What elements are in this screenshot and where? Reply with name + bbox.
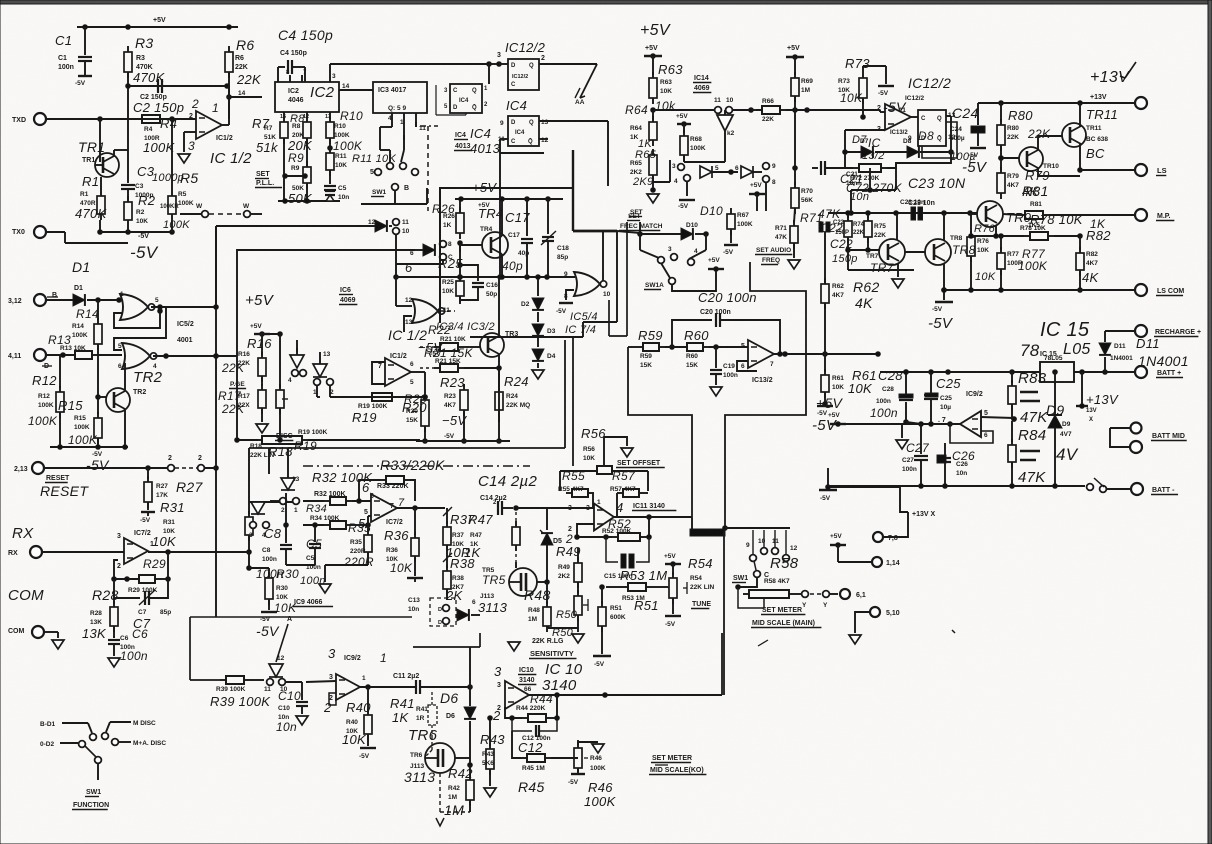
resistor R51 [600,585,605,604]
capacitor C28 [870,368,921,424]
ground c10 [296,716,308,725]
ic9 block box top [190,616,303,618]
resistor R5 [168,119,176,220]
wire R73 bottom [861,98,866,119]
terminal +13V [1135,97,1147,109]
capacitor C27 [902,424,930,486]
label R33 220K [377,457,445,490]
op-amp IC10 [492,681,529,723]
capacitor C20 [672,290,780,354]
resistor R56 box [560,437,648,474]
transistor TR1 [95,119,119,177]
wire vert226 c1 [0,0,1,1]
wire r58 right [795,591,838,598]
wire C2 feedback [126,84,230,89]
resistor R43 box [484,743,496,797]
transistor TR5 [478,567,537,615]
op-amp IC7/2b [358,480,405,531]
label R1 [75,174,108,221]
switch batt [1087,478,1130,492]
resistor R72 [853,164,887,172]
diode D7 [845,134,873,158]
resistor R60 [665,328,748,369]
block box B outline [628,347,692,518]
wire to R66 [751,109,762,111]
wire R68 bottom [684,131,725,162]
zener D9 [1046,382,1079,486]
op-amp IC11 [565,499,624,546]
resistor R83 [1008,370,1048,426]
resistor R49 box [574,557,582,593]
resistor R62 box [821,278,880,354]
ground rlg [508,642,520,651]
resistor R68 [680,130,706,161]
resistor R47 [464,512,520,562]
capacitor C3 [121,92,135,200]
wire osc line [653,97,753,113]
resistor R63 [649,62,683,113]
wire ic9b loop [948,422,993,443]
resistor R39 [210,676,271,709]
wire top link to IC12/2 [330,62,508,67]
wire nor cross link [114,307,166,350]
resistor R81 [1019,183,1135,229]
label IC5 4001 [177,321,194,344]
wire r83 [1011,372,1013,383]
switch meter contacts [746,538,798,561]
arrow bottom d2 [436,818,444,826]
ground D4 [532,363,544,379]
ic IC12/2 first half box [508,59,539,90]
resistor R53 [606,568,668,602]
resistor R8 [290,112,311,167]
resistor R51 box [598,598,659,654]
resistor R10 [325,109,363,153]
wire d10 branches [640,234,706,259]
wire dash link ic3 [420,126,438,211]
wire dashdot row [303,465,530,467]
resistor R56 [581,426,606,462]
block pll bottom edges [249,337,573,466]
wire TR11 emitter [1079,103,1081,126]
box bottom d2 [413,633,480,647]
switch sw1c arm [754,561,769,579]
ic IC3 box [373,82,427,113]
ground c5 arrow [319,584,331,593]
wire box bottom b2 [470,336,520,338]
resistor R25 [459,243,461,252]
wire nor3 out dashed [440,310,455,312]
diode D6 [440,687,476,765]
wire sw to 277 node [394,234,399,279]
capacitor C5a [324,185,349,201]
op-amp IC9/2a [323,674,366,715]
capacitor C1 [75,57,92,87]
wire disc row line [237,439,258,441]
resistor R79 [997,156,1050,199]
capacitor C23 [900,199,925,220]
wire vert237 mid [235,356,240,442]
wire opamp2 box [372,362,385,384]
wire nor1 in2 loop [114,309,162,328]
resistor R38 [443,556,475,603]
resistor R80 [997,103,1051,156]
wire row 250 [237,250,415,356]
wire 78 elbow [900,487,908,512]
resistor R58 [743,555,799,598]
wire +5V rail top-left [77,25,238,30]
wire c21 lower [851,163,896,213]
terminal RESET [14,462,168,474]
resistor R64 [630,110,657,150]
wire r33 loop [359,480,415,501]
pot R54 TUNE [664,553,681,628]
wire -5V tr2 rail [50,445,128,473]
resistor R61 [821,354,877,404]
resistor R62 [824,232,826,284]
terminal RX [8,525,124,558]
power -5V r51 [593,656,611,668]
wire sw stubs [753,530,786,554]
resistor R66 [756,98,786,123]
label R18 pot [250,443,293,459]
wire row 226 [216,225,378,227]
inverter k2 [717,110,735,137]
label +13V x [0,0,1,1]
thyristor 12 [276,616,292,662]
nor gate IC5c [564,271,611,300]
wire r53-pot [668,587,669,588]
resistor R34 [303,503,370,529]
wire osc to opamp [807,110,885,112]
wire d2 vert470 [469,647,471,687]
switch 2-1 c2 [270,498,299,514]
switch 3-4 c2 [249,522,269,539]
wire IC2-IC3 [330,64,373,90]
label SET FREQ MATCH [629,209,643,217]
resistor R35 [343,521,374,569]
wire IC4b pins [498,119,549,144]
label SET PLL [255,171,282,188]
wire r21 dashes [420,347,434,368]
label D1 handwritten [72,259,91,275]
wire row226 diode [368,219,387,232]
terminal HP [1135,209,1174,221]
switch fn arm [85,746,101,780]
label SW1 c3 [732,575,748,583]
switch SW1A arm [661,263,675,284]
capacitor C15 [604,537,649,580]
wire op-amp output [222,97,229,125]
wire ic9a out [360,685,415,690]
label D1 printed [74,285,83,292]
resistor R76 [967,213,996,290]
capacitor C6 plates [108,627,148,667]
scan border top [0,0,1212,4]
wire pge rail [255,332,282,388]
resistor R74 [844,211,865,253]
resistor R77 [999,234,1004,250]
resistor R84 [1008,421,1046,486]
resistor R82 [1076,217,1111,292]
wire R7R9 rail [278,195,340,203]
label set audio freq [755,243,800,269]
wire ic10 out [529,692,722,706]
switch slash r38 [443,553,452,562]
switch contacts 3-4 [672,163,690,196]
oscillator box top [440,150,573,323]
terminal 1-14 [872,557,900,567]
pot R18 wiper [276,384,284,414]
resistor R33 [380,476,410,484]
wire R65 to gnd [647,175,659,203]
resistor R55 [558,469,594,507]
label SET OFFSET [616,460,665,468]
resistor R43 [480,716,505,767]
wire tr8 emitter [942,264,947,292]
wire vert216 full [214,226,219,617]
thyristor triangle [313,351,331,377]
ic IC15 box [1040,355,1074,382]
capacitor C10 [276,682,308,734]
diode pair sw1a [700,165,753,178]
wire TR10 collector [1038,136,1062,150]
pot R50 [548,590,588,639]
label R8 [287,123,313,153]
op-amp IC9/2b [938,410,1016,437]
resistor R24 [495,368,530,443]
resistor R23 [440,375,468,443]
wire IC4 pins [436,85,488,115]
op-amp IC13/2b [741,340,774,384]
capacitor C26 [937,443,975,486]
wire -5V below [678,200,695,210]
label M DISC [102,720,156,739]
scan border right [1208,0,1212,844]
capacitor C4 [278,27,333,82]
wire TR10 emitter [1038,168,1080,176]
wire nor5c in8 [556,290,598,336]
resistor R57 [610,469,645,516]
switch 4-3 contacts [288,370,298,384]
terminal 3-12 [8,292,58,306]
resistor R71 [775,207,841,249]
label -5V txo [130,233,159,262]
wire R66 to opamp [786,108,809,113]
resistor R4 [136,115,174,123]
wire TR2 emitter [124,409,126,447]
label O-D2 [40,741,85,748]
oscillator box right thick [520,231,617,337]
wire IC2 top pins [286,70,307,82]
ground set offset [604,437,633,457]
capacitor C25 [924,372,961,424]
resistor R28 [82,587,119,641]
wire ic9b junction [816,395,960,426]
wire ic7 out [148,550,249,555]
wire tr9 collector [1003,214,1019,215]
label DISC [275,433,293,441]
wire R9 wiper [283,174,308,179]
label SET METER MAIN [751,607,821,628]
diode c13 [457,609,469,621]
label C3 [135,164,184,199]
power -5V tr8 [928,288,954,332]
op-amp IC13/2a [862,104,911,162]
label R5 [163,170,199,231]
label +13V X [912,511,935,518]
label SET FREQ MATCH2 [617,213,663,233]
ground tr7 [892,264,904,288]
wire r13 gate [98,354,122,356]
resistor R45 [512,731,578,795]
wire ic13b loop [737,361,757,371]
transistor TR8 [925,235,976,265]
op-amp IC1/2 [196,111,222,139]
wire nor2 out [153,354,237,359]
wire opamp13 out [899,107,918,117]
switch SW1 contacts [370,163,418,204]
wire batt- rail [828,484,1085,489]
switch disc contacts [300,370,307,377]
wire TR3 emitter [464,354,501,422]
pot R46 [568,740,617,809]
wire tr6 drain [455,758,472,767]
capacitor C6 [113,636,115,638]
resistor R75 [864,211,886,250]
wire b2 vert320 [317,385,320,397]
power +5V pge [245,292,275,336]
wire tr7 bottom row [848,250,914,270]
wire -5V emitters [98,220,175,234]
wire stem full [723,531,725,695]
diode D11 [1099,331,1189,372]
ground r36 [407,578,423,582]
wire gate path up [215,226,217,307]
wire r57 left [645,492,648,494]
resistor R73 [838,56,886,105]
diode D5 [540,508,562,545]
wire tr8 collector [943,213,945,240]
label RESET [40,475,89,499]
wire vert237 c1 [268,448,270,474]
resistor R2 [124,193,156,226]
wire d5 tr5 [537,545,549,584]
node TXD junction [98,117,103,122]
ground op-amp pin3 [178,132,196,163]
switch 11-10 d1 [264,679,302,693]
wire +5v osc rail [455,180,563,209]
label IC11 3140 [632,503,676,511]
wire row250 diode [405,241,453,275]
diode 13pin [290,348,304,368]
capacitor C18 trimmer [541,199,569,277]
power +13V rail [978,62,1136,105]
power -5V r23 [418,340,467,440]
wire c23 row [828,211,977,216]
capacitor C7 loop [114,579,168,605]
label IC14 4069 [693,75,711,93]
wire nor1 out [151,305,216,310]
node junction R6-IC2 [227,86,262,119]
wire ic9a loop [329,693,336,705]
wire C1 to rail [84,27,86,55]
wire T stem bottoms [690,518,727,536]
label IC4 handwritten [506,98,527,113]
resistor R52 [575,517,652,541]
wire r58 under loop [738,587,764,608]
arrow AA diagonal [575,64,597,106]
wire r19 to box [308,439,420,441]
terminal TXO [12,226,128,243]
wire sw1c down [736,578,757,589]
resistor R65 [630,149,657,188]
ic IC12/2 second box [905,75,956,146]
label pin3 IC12 [497,52,501,59]
wire c14 to ic11 [516,507,594,509]
label IC6 4069 [339,287,357,305]
resistor R6 [225,46,233,97]
label IC9/2 d2 [328,646,387,665]
transistor TR10 [1019,147,1059,171]
resistor R3 [124,46,132,92]
label M+A DISC [112,739,167,747]
resistor R67 [723,208,753,256]
wire IC12b right pin [946,116,951,152]
resistor R40 [342,687,372,747]
transistor TR6 [404,727,455,785]
wire opamp2b out [411,372,425,397]
resistor R26 [432,199,464,239]
wire tr7 base [848,248,879,253]
power +5V mid [749,182,765,211]
label C1 handwritten [55,33,72,48]
resistor R14 [72,300,102,397]
block box A left [609,222,627,336]
diode D4 [532,338,556,361]
label C2 [133,94,184,115]
wire tr7-tr8 link [905,251,925,253]
wire r20 bottom [416,440,510,442]
wire sw1a elbow [672,257,724,291]
wire IC12b loop [922,122,957,158]
nor gate IC3/2 [405,297,495,333]
resistor R15 [58,395,102,447]
power -5V r30 [256,612,280,639]
wire ic15 right [1074,370,1135,375]
label 22K RLG [529,638,577,659]
wire TR3 collector [498,277,500,336]
wire vert226 low [0,0,1,1]
wire 277 row [396,275,575,280]
ground com [52,640,64,649]
resistor R21a [428,323,466,351]
label IC9/2 [966,391,983,398]
label IC1/2 pins [188,97,252,167]
ground r46 top [578,742,604,753]
resistor R78 box [1020,225,1054,240]
capacitor C13 [408,597,456,626]
resistor R29 [125,552,171,594]
resistor R70 [793,110,798,185]
power -5V r61 [812,402,838,434]
wire horiz502 [249,501,300,503]
wire TR2 collector [124,363,126,391]
wire tr6 source dashed [440,773,470,812]
thyristor 13 [319,352,321,364]
wire pin routes to SW1 [380,122,416,162]
label PGE [229,381,246,389]
